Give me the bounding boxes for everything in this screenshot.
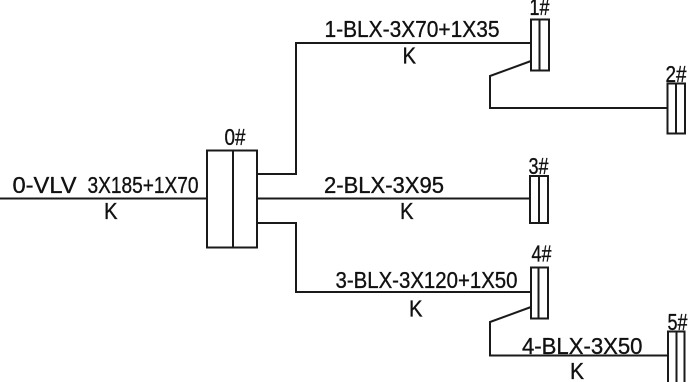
svg-text:0#: 0#	[225, 124, 246, 150]
svg-text:K: K	[570, 358, 585, 382]
distribution box 3#	[530, 176, 548, 223]
distribution box 4#	[531, 268, 548, 319]
svg-text:0-VLV: 0-VLV	[13, 172, 78, 198]
svg-text:K: K	[403, 43, 417, 69]
wire: incoming feeder to 0# box	[0, 198, 207, 200]
wire: link from 4# box to 5# box	[490, 307, 668, 356]
svg-text:4#: 4#	[532, 241, 552, 267]
svg-text:5#: 5#	[668, 309, 688, 335]
distribution box 1#	[531, 20, 549, 71]
svg-text:1-BLX-3X70+1X35: 1-BLX-3X70+1X35	[325, 16, 500, 42]
svg-text:1#: 1#	[530, 0, 550, 20]
svg-text:K: K	[409, 296, 423, 322]
distribution box 5#	[668, 332, 685, 382]
wire: link from 1# box to 2# box	[490, 61, 668, 108]
distribution box 2#	[668, 84, 686, 134]
svg-text:3X185+1X70: 3X185+1X70	[88, 172, 199, 198]
svg-text:K: K	[400, 198, 414, 224]
wire: branch 2 from 0# box to 3# box	[257, 198, 530, 200]
svg-text:K: K	[104, 198, 118, 224]
distribution box 0#	[207, 151, 257, 248]
label: feeder cable 0-VLV 3X185+1X70	[13, 172, 199, 198]
svg-text:3-BLX-3X120+1X50: 3-BLX-3X120+1X50	[336, 267, 518, 293]
svg-text:2-BLX-3X95: 2-BLX-3X95	[324, 172, 444, 198]
wire: branch 3 from 0# box down to 4# box	[257, 223, 531, 292]
svg-text:3#: 3#	[529, 153, 549, 179]
svg-text:4-BLX-3X50: 4-BLX-3X50	[522, 333, 643, 359]
wire: branch 1 from 0# box up to 1# box	[257, 43, 531, 174]
svg-text:2#: 2#	[666, 61, 687, 87]
